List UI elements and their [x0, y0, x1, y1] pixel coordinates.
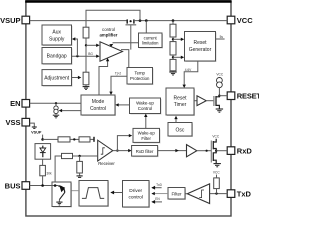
ground driver emitter	[56, 200, 62, 205]
svg-text:Receiver: Receiver	[98, 161, 115, 166]
wire driver control to slope box	[111, 192, 123, 194]
resistor R2 feedback bottom	[83, 72, 89, 85]
resistor R7 sense 2	[79, 137, 90, 142]
svg-text:Reset: Reset	[193, 40, 207, 46]
wire VSUP pin to pass transistor	[30, 20, 127, 22]
resistor R9 bus divider	[62, 153, 73, 158]
wire resistor to BUS	[42, 176, 44, 186]
top border thick line	[25, 0, 231, 3]
wire bandgap to aux supply	[75, 39, 78, 56]
svg-text:VSUP: VSUP	[0, 16, 20, 25]
node chain tap 2	[172, 56, 174, 58]
node EN pulldown tap	[55, 102, 57, 104]
svg-text:Supply: Supply	[49, 36, 65, 42]
pin BUS	[5, 181, 30, 190]
wire tap2 to reset generator	[173, 56, 181, 58]
box output driver U13	[52, 182, 72, 208]
box Reset Generator U2	[185, 32, 217, 63]
wire signal stub EN into driver control	[152, 201, 162, 203]
wire bandgap output to op-amp	[72, 55, 97, 57]
chip outline border	[26, 2, 231, 216]
pin VCC	[227, 16, 253, 25]
op-amp U1 control amplifier	[100, 27, 123, 61]
wire to RxD pin	[216, 150, 227, 152]
node sense mid	[73, 138, 75, 140]
buffer B1 reset driver	[194, 96, 206, 106]
wire sense row	[43, 138, 58, 140]
wire mode control enable to op-amp	[99, 61, 108, 95]
svg-text:Generator: Generator	[189, 47, 212, 53]
box Reset Timer U3	[166, 88, 195, 116]
svg-text:RxD filter: RxD filter	[136, 149, 154, 154]
ground bus divider	[77, 173, 83, 177]
wire BUS pin to driver	[30, 185, 58, 187]
svg-text:5s: 5s	[220, 35, 224, 39]
wire tap1 to reset generator	[173, 38, 181, 40]
transistor Q2 reset open drain	[206, 96, 219, 109]
svg-text:Control: Control	[138, 106, 153, 111]
wire slope to driver transistor	[64, 190, 79, 192]
resistor R11 TxD pull-up	[214, 175, 220, 194]
schmitt trigger S1	[187, 184, 209, 204]
pin VSS	[5, 118, 29, 127]
wire buffer to output stage	[197, 150, 212, 152]
pin RxD	[227, 147, 252, 156]
svg-text:VSUP: VSUP	[31, 130, 42, 134]
wire receiver output to wake-up filter	[117, 136, 129, 151]
svg-text:Driver: Driver	[129, 188, 142, 194]
box current limitation	[139, 33, 164, 49]
wire wake-up control to mode control	[118, 104, 130, 106]
svg-text:BG: BG	[88, 52, 93, 56]
wire divider middle	[85, 38, 87, 72]
box Temp Protection U5	[127, 68, 154, 86]
wire VSS pin internal ground	[30, 123, 37, 128]
box Bandgap	[42, 48, 73, 65]
node BUS pull-up tap	[41, 184, 44, 187]
wire rxd filter to buffer	[158, 150, 187, 152]
svg-text:limitation: limitation	[142, 41, 159, 46]
svg-text:Temp: Temp	[134, 70, 145, 75]
wire	[73, 155, 98, 157]
svg-text:Aux: Aux	[52, 30, 61, 36]
resistor R4 chain middle	[170, 42, 176, 55]
box Aux Supply	[42, 25, 73, 46]
svg-text:BUS: BUS	[5, 181, 21, 190]
svg-text:4.6V: 4.6V	[185, 68, 192, 72]
current source EN pulldown	[54, 103, 58, 113]
box Filter U10	[168, 188, 186, 201]
svg-text:Adjustment: Adjustment	[44, 76, 70, 82]
resistor R6 sense 1	[58, 137, 70, 142]
wire filter to driver control	[152, 193, 168, 195]
wire VCC rail to current limitation	[145, 21, 147, 33]
node receiver output	[116, 149, 118, 151]
svg-text:Osc: Osc	[176, 128, 185, 134]
wire EN pin to mode control	[30, 102, 81, 104]
svg-text:VCC: VCC	[213, 170, 220, 174]
node chain tap 1	[172, 38, 174, 40]
node junction VCC rail current limit tap	[145, 19, 148, 22]
wire Q1 gate to control amplifier output	[130, 25, 132, 49]
wire tap to op-amp input	[86, 44, 97, 46]
node bus divider tap	[78, 155, 80, 157]
resistor R8 30k pull-up	[40, 165, 46, 175]
svg-text:Filter: Filter	[172, 191, 183, 196]
node TxD pull-up tap	[215, 192, 217, 194]
wire schmitt to filter	[185, 193, 187, 195]
wire VCC rail	[134, 20, 227, 22]
pin EN	[10, 99, 30, 108]
transistor Q4 bus driver	[58, 185, 65, 199]
wire temp protection to mode control	[111, 76, 127, 92]
svg-text:Bandgap: Bandgap	[47, 54, 67, 60]
svg-text:Control: Control	[90, 106, 106, 112]
ground feedback divider	[83, 85, 90, 90]
wire mode control to pulldown switch	[61, 110, 81, 112]
current source reset pull-up	[216, 73, 223, 96]
pin TxD	[227, 190, 251, 199]
node BUS divider tap	[54, 184, 57, 187]
svg-text:Filter: Filter	[141, 136, 151, 141]
svg-text:RxD: RxD	[237, 147, 253, 156]
svg-text:VSS: VSS	[5, 118, 20, 127]
node VSUP sense	[41, 135, 44, 141]
svg-text:VCC: VCC	[212, 135, 219, 139]
svg-text:Timer: Timer	[174, 102, 187, 108]
terminal bar comparator reference	[93, 137, 95, 142]
wire current limit to op-amp	[113, 42, 139, 44]
svg-text:Wake-up: Wake-up	[138, 130, 156, 135]
box RxD Filter U9	[132, 146, 159, 158]
svg-text:Reset: Reset	[173, 96, 187, 102]
node junction VCC rail divider tap	[172, 19, 175, 22]
svg-text:Tj>2: Tj>2	[115, 71, 122, 75]
ground EN pulldown	[53, 114, 59, 118]
wire TxD pin to schmitt	[210, 193, 228, 195]
wire reset generator to reset timer	[184, 61, 198, 85]
wire signal stub TxD into driver control	[152, 187, 162, 189]
wire receiver output to rxd filter	[113, 150, 129, 152]
resistor R10 divider lower	[77, 156, 83, 173]
svg-text:VCC: VCC	[216, 73, 223, 77]
wire wake-up filter to wake-up control	[145, 116, 147, 128]
wire to RESET pin	[219, 95, 227, 97]
svg-text:EN: EN	[10, 99, 20, 108]
wire to comparator terminal	[90, 138, 94, 140]
node junction VCC rail feedback tap	[139, 19, 142, 22]
svg-text:Protection: Protection	[130, 76, 150, 81]
transistor Q3 rxd cmos pair	[211, 139, 216, 163]
svg-text:amplifier: amplifier	[100, 33, 118, 38]
resistor R1 feedback top	[83, 27, 89, 38]
box Adjustment	[42, 70, 73, 87]
node RESET output	[218, 95, 220, 97]
wire op-amp output	[121, 50, 129, 68]
wire diode to resistor	[42, 159, 44, 165]
node bandgap branch	[76, 55, 78, 57]
ground Q2 source	[216, 109, 223, 112]
svg-text:30k: 30k	[47, 171, 53, 175]
svg-text:Mode: Mode	[92, 99, 105, 105]
box Driver control U11	[123, 181, 151, 209]
svg-text:control: control	[128, 195, 142, 201]
diode D1 series	[35, 144, 51, 160]
svg-text:VCC: VCC	[237, 16, 253, 25]
comparator B3 receiver	[98, 140, 116, 166]
box Osc U4	[168, 123, 193, 138]
svg-text:TxD: TxD	[156, 183, 163, 187]
node rxd output	[215, 150, 217, 152]
ground Q3	[214, 164, 221, 167]
wire rail to divider chain	[172, 21, 174, 25]
resistor R5 chain bottom	[170, 59, 176, 70]
transistor Q1 pass device	[126, 19, 137, 24]
wire reset generator output stub	[216, 38, 225, 40]
wire chain	[172, 55, 174, 59]
pin RESET	[227, 92, 261, 101]
svg-text:EN: EN	[155, 197, 160, 201]
svg-text:Wake-up: Wake-up	[136, 100, 154, 105]
box Wake-up Filter U8	[133, 128, 161, 143]
pin VSUP	[0, 16, 30, 25]
box Wake-up Control U7	[130, 98, 162, 115]
wire adjustment trim arrow	[72, 77, 79, 79]
wire	[70, 138, 79, 140]
wire feedback loop from VCC rail to divider	[86, 10, 140, 27]
buffer B2 rxd	[187, 145, 197, 157]
node rxd gate	[206, 150, 208, 152]
svg-text:RESET: RESET	[237, 92, 259, 101]
resistor R3 chain top	[170, 24, 176, 37]
wire chain	[172, 37, 174, 42]
node divider tap	[85, 44, 87, 46]
box Mode Control U6	[81, 95, 116, 116]
box slope control U12	[79, 181, 109, 208]
wire osc to reset timer	[175, 119, 177, 123]
ground divider chain	[169, 71, 176, 75]
wire BUS divider row to comparator	[55, 156, 61, 186]
svg-text:control: control	[102, 27, 115, 32]
svg-text:TxD: TxD	[237, 190, 252, 199]
